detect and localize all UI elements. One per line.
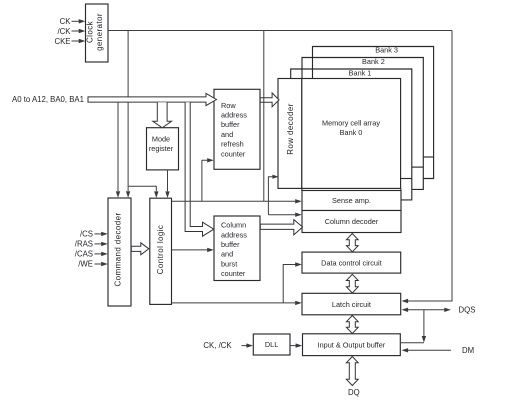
svg-text:DLL: DLL bbox=[265, 340, 278, 349]
wire DQS branch to io buffer bbox=[423, 310, 425, 338]
svg-text:counter: counter bbox=[221, 269, 246, 278]
wire branch up into row decoder bbox=[268, 177, 273, 215]
clock generator U1 bbox=[86, 4, 109, 62]
svg-text:address: address bbox=[221, 111, 247, 120]
svg-text:/WE: /WE bbox=[78, 260, 93, 269]
arrow /WE bbox=[95, 263, 102, 265]
block arrow row address buffer to row decoder bbox=[260, 93, 279, 107]
svg-text:buffer: buffer bbox=[221, 240, 240, 249]
memory cell array bank 0 bbox=[302, 79, 401, 189]
svg-text:/CS: /CS bbox=[80, 230, 93, 239]
bank 2 box bbox=[302, 58, 423, 190]
bank 1 box bbox=[291, 69, 412, 200]
text row address buffer bbox=[221, 101, 247, 159]
wire right rail down to latch bbox=[407, 31, 452, 302]
svg-text:and: and bbox=[221, 250, 233, 259]
svg-text:Command decoder: Command decoder bbox=[114, 212, 123, 286]
double arrow column decoder to data control bbox=[346, 234, 358, 252]
svg-text:A0 to A12, BA0, BA1: A0 to A12, BA0, BA1 bbox=[12, 95, 84, 104]
double arrow latch to io buffer bbox=[346, 316, 358, 334]
svg-text:Bank 3: Bank 3 bbox=[375, 45, 398, 54]
latch circuit bbox=[302, 293, 401, 315]
column decoder box bbox=[302, 211, 401, 233]
svg-text:Memory cell array: Memory cell array bbox=[322, 118, 380, 127]
wire into column decoder feed bbox=[268, 214, 295, 216]
bus drop arrow into mode register bbox=[153, 102, 172, 128]
block arrow column address buffer to column decoder bbox=[260, 220, 302, 235]
svg-text:Column decoder: Column decoder bbox=[325, 217, 379, 226]
arrow CKE bbox=[72, 40, 80, 42]
bank 3 box bbox=[313, 47, 434, 179]
wire clock drop to command decoder bbox=[127, 31, 129, 192]
arrow /CS bbox=[95, 233, 102, 235]
svg-text:Control logic: Control logic bbox=[156, 225, 165, 275]
svg-text:Column: Column bbox=[221, 221, 246, 230]
svg-text:Latch circuit: Latch circuit bbox=[332, 300, 371, 309]
wire branch up to row address buffer bbox=[202, 160, 208, 201]
wire control logic to sense amp bbox=[172, 200, 296, 202]
control logic bbox=[150, 198, 172, 304]
svg-text:Bank 0: Bank 0 bbox=[340, 128, 363, 137]
wire branch to data control circuit bbox=[283, 265, 296, 303]
wire mode register to control logic bbox=[167, 170, 169, 191]
svg-text:DQS: DQS bbox=[459, 306, 476, 315]
svg-text:generator: generator bbox=[95, 13, 104, 51]
arrow /CAS bbox=[95, 253, 102, 255]
double arrow io buffer to DQ bbox=[346, 357, 358, 386]
svg-text:address: address bbox=[221, 230, 247, 239]
row decoder U-RD bbox=[278, 79, 302, 189]
mode register bbox=[147, 128, 179, 170]
arrow into DLL bbox=[242, 345, 248, 347]
arrow DLL to io buffer bbox=[290, 345, 297, 347]
svg-text:Clock: Clock bbox=[86, 20, 95, 43]
wire control logic to latch circuit bbox=[172, 302, 297, 304]
address bus A0-A12 block arrow bbox=[88, 93, 217, 105]
svg-text:Input & Output buffer: Input & Output buffer bbox=[318, 340, 386, 349]
svg-text:CK, /CK: CK, /CK bbox=[203, 341, 232, 350]
svg-text:counter: counter bbox=[221, 149, 246, 158]
svg-text:/CAS: /CAS bbox=[75, 250, 93, 259]
DLL block bbox=[253, 334, 290, 355]
svg-text:and: and bbox=[221, 130, 233, 139]
svg-text:CKE: CKE bbox=[54, 37, 70, 46]
svg-text:Row: Row bbox=[221, 101, 236, 110]
wire control logic to column address buffer bbox=[172, 249, 208, 251]
svg-text:buffer: buffer bbox=[221, 120, 240, 129]
svg-text:/CK: /CK bbox=[58, 27, 72, 36]
svg-text:/RAS: /RAS bbox=[75, 240, 93, 249]
svg-text:DM: DM bbox=[462, 346, 474, 355]
wire clock generator top rail bbox=[108, 30, 452, 32]
input and output buffer bbox=[303, 334, 401, 356]
column address buffer and burst counter bbox=[214, 216, 260, 281]
svg-text:CK: CK bbox=[60, 17, 72, 26]
block arrow command decoder to control logic bbox=[131, 243, 149, 255]
svg-text:Bank 2: Bank 2 bbox=[362, 57, 385, 66]
svg-text:Data control circuit: Data control circuit bbox=[321, 258, 381, 267]
double arrow data control to latch bbox=[346, 274, 358, 293]
arrow CK bbox=[72, 20, 80, 22]
arrow /CK bbox=[72, 30, 80, 32]
svg-text:register: register bbox=[149, 144, 174, 153]
svg-text:Sense amp.: Sense amp. bbox=[332, 196, 371, 205]
wire DM input bbox=[407, 349, 451, 351]
sense amp box bbox=[302, 191, 401, 211]
arrow /RAS bbox=[95, 243, 102, 245]
svg-text:refresh: refresh bbox=[221, 140, 244, 149]
command decoder bbox=[108, 198, 131, 306]
text column address buffer bbox=[221, 221, 247, 279]
wire bus drop to command decoder bbox=[117, 102, 119, 191]
wire clock jog to control logic bbox=[128, 186, 156, 191]
row address buffer and refresh counter bbox=[214, 89, 260, 169]
svg-text:burst: burst bbox=[221, 259, 237, 268]
wire clock vertical mid bbox=[263, 31, 265, 202]
bus elbow arrow into column address buffer bbox=[185, 102, 214, 236]
svg-text:DQ: DQ bbox=[348, 388, 360, 397]
data control circuit bbox=[302, 252, 401, 273]
svg-text:Bank 1: Bank 1 bbox=[349, 68, 372, 77]
svg-text:Row decoder: Row decoder bbox=[286, 103, 295, 155]
svg-text:Mode: Mode bbox=[152, 135, 170, 144]
wire DQS bidirectional bbox=[407, 309, 445, 311]
